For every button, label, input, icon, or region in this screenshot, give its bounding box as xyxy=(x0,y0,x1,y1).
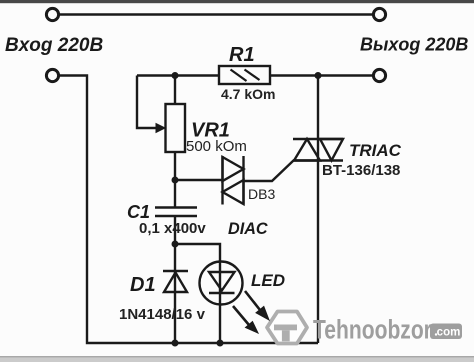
wire node B to C1 xyxy=(174,180,176,208)
svg-text:R1: R1 xyxy=(229,44,255,66)
resistor R1 xyxy=(219,66,270,84)
svg-text:1N4148/16 v: 1N4148/16 v xyxy=(119,306,206,323)
svg-text:500 kOm: 500 kOm xyxy=(186,138,247,155)
svg-text:Выxog 220B: Выxog 220B xyxy=(360,35,468,55)
wire node A horizontal xyxy=(137,74,219,76)
wire right vertical xyxy=(317,76,319,344)
wire D1 branch xyxy=(174,244,176,343)
diode D1 xyxy=(163,271,188,292)
LED arrow 1 xyxy=(245,291,269,320)
node at output branch xyxy=(315,72,322,79)
svg-text:D1: D1 xyxy=(130,274,156,296)
top dark bar xyxy=(0,0,474,3)
node LED bottom junction xyxy=(217,340,224,347)
logo wordmark xyxy=(313,315,432,345)
wire node B to DIAC xyxy=(175,179,222,181)
svg-text:4.7 kOm: 4.7 kOm xyxy=(221,86,275,102)
potentiometer VR1 xyxy=(156,104,185,152)
node D1 bottom junction xyxy=(172,340,179,347)
node A junction xyxy=(172,72,179,79)
wire top bus xyxy=(59,13,373,15)
svg-text:com: com xyxy=(437,327,461,339)
svg-text:LED: LED xyxy=(251,271,285,290)
node B junction xyxy=(172,177,179,184)
wire VR1 bottom to node B xyxy=(174,152,176,180)
logo T xyxy=(274,325,297,331)
wire input lower lead xyxy=(59,76,318,344)
wire R1 to output xyxy=(270,74,373,76)
capacitor C1 xyxy=(155,208,197,217)
svg-text:TRIAC: TRIAC xyxy=(349,141,402,160)
terminal output top xyxy=(373,8,385,20)
diac DB3 xyxy=(223,156,244,205)
terminal input top xyxy=(46,8,58,20)
wire VR1 top xyxy=(174,76,176,105)
svg-text:0,1 x400v: 0,1 x400v xyxy=(139,220,206,237)
bottom gray strip xyxy=(0,356,474,358)
node C junction xyxy=(172,241,179,248)
svg-text:DB3: DB3 xyxy=(248,186,275,202)
wire C1 to node C xyxy=(174,216,176,244)
LED arrow 2 xyxy=(233,306,258,333)
svg-text:BT-136/138: BT-136/138 xyxy=(322,162,400,179)
svg-text:C1: C1 xyxy=(127,202,150,222)
terminal output bottom xyxy=(373,69,385,81)
LED xyxy=(200,262,243,305)
wire DIAC to gate xyxy=(244,160,295,181)
logo hexagon xyxy=(267,312,307,344)
wire node C to LED branch xyxy=(175,244,220,343)
triac BT-136/138 xyxy=(293,139,343,161)
svg-text:Bxog 220B: Bxog 220B xyxy=(5,35,103,56)
svg-text:DIAC: DIAC xyxy=(228,220,268,238)
wire wiper loop xyxy=(137,76,158,129)
logo .com badge xyxy=(430,324,462,340)
svg-text:Tehnoobzor: Tehnoobzor xyxy=(313,315,432,345)
terminal input bottom xyxy=(46,69,58,81)
